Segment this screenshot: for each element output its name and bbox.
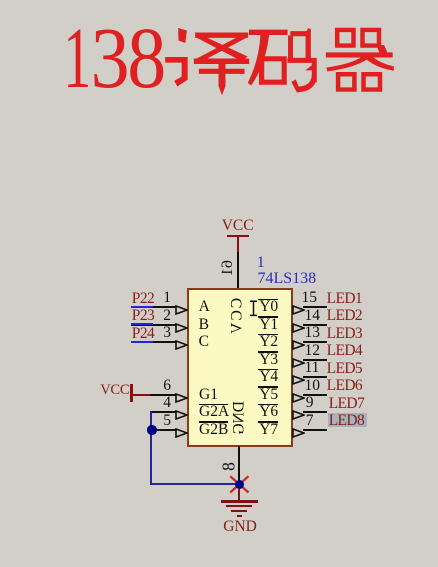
title char 器 dog dot stroke <box>377 45 387 54</box>
wire pin 10 <box>303 394 327 396</box>
wire pin 2 <box>131 324 176 326</box>
wire pin 1 <box>131 306 176 308</box>
wire pin 16 <box>237 252 239 289</box>
title char 译 right part right-falling cross stroke <box>197 38 247 61</box>
pin name Y0 <box>259 299 278 315</box>
pin name G2B overline <box>199 421 228 423</box>
pin number 7 <box>306 413 314 429</box>
pin number 9 <box>306 395 314 411</box>
ground net label GND <box>223 519 257 535</box>
net label LED2 <box>327 308 362 324</box>
pin number 12 <box>305 343 321 359</box>
pin number 13 <box>305 325 321 341</box>
power port VCC (top) bar <box>227 235 250 237</box>
net label LED5 <box>327 361 362 377</box>
pin name Y1 <box>259 317 278 333</box>
pin 1 arrow <box>175 302 188 320</box>
pin number 16 (rotated 90) <box>220 252 236 284</box>
pin name Y6 overline <box>258 404 278 406</box>
net label P23 blue underline <box>131 323 153 325</box>
ground symbol bar 1 <box>221 500 258 502</box>
wire pin 11 <box>303 376 327 378</box>
pin 3 arrow <box>175 337 188 355</box>
svg-text:8: 8 <box>127 9 166 106</box>
title char 译 speech radical horizontal-fold-lift <box>166 57 188 86</box>
junction dot on pin5 wire <box>147 425 156 434</box>
net label LED7 <box>329 396 364 412</box>
pin 9 arrow <box>292 407 305 425</box>
net label P24 blue underline <box>131 341 153 343</box>
pin number 14 <box>305 308 321 324</box>
title char 译 right part short horizontal <box>199 69 244 73</box>
pin number 11 <box>305 360 320 376</box>
junction dot at pin 8 / gnd node <box>235 480 244 489</box>
title char 码 horse top fold vertical <box>306 29 311 60</box>
title char 码 horse bottom hook <box>292 76 317 92</box>
power port VCC (top) stub <box>237 237 239 252</box>
ground symbol bar 2 <box>226 505 253 507</box>
power port VCC (left) bar <box>130 384 132 403</box>
pin name A <box>199 299 210 315</box>
net label LED8 selection highlight <box>328 413 366 426</box>
hidden pin name VCC (rotated 90) <box>229 297 245 337</box>
pin 14 arrow <box>292 320 305 338</box>
pin 6 arrow <box>175 390 188 408</box>
pin number 10 <box>305 378 321 394</box>
pin 7 arrow <box>292 425 305 443</box>
title char 译 speech radical dot <box>179 29 187 43</box>
wire pin 14 <box>303 324 327 326</box>
pin name Y7 overline <box>258 421 278 423</box>
wire pin 12 <box>303 359 327 361</box>
schematic title 138译码器 <box>0 0 438 110</box>
title char 器 dog right-falling stroke <box>365 57 394 70</box>
svg-text:1: 1 <box>63 9 91 106</box>
pin name Y4 overline <box>258 369 278 371</box>
pin number 2 <box>163 308 171 324</box>
pin number 15 <box>302 290 318 306</box>
wire pin 13 <box>303 341 327 343</box>
pin name Y3 <box>259 352 278 368</box>
title char 译 right part vertical <box>219 64 225 95</box>
hidden pin name GND (rotated 90) <box>231 398 247 438</box>
wire pin 9 <box>303 411 327 413</box>
wire pin 8 <box>238 446 240 483</box>
wire pin 5 <box>151 429 176 431</box>
pin 12 arrow <box>292 355 305 373</box>
title char 器 top-left mouth <box>335 28 355 47</box>
pin name G2A <box>199 404 229 420</box>
pin name Y7 <box>259 422 278 438</box>
title char 译 right part top horizontal <box>196 33 248 38</box>
ground symbol bar 3 <box>231 510 248 512</box>
net label LED4 <box>327 343 362 359</box>
wire pin 6 <box>150 394 176 396</box>
pin number 4 <box>163 395 171 411</box>
net label P24 <box>132 326 154 342</box>
pin name Y2 overline <box>258 334 278 336</box>
pin name Y3 overline <box>258 351 278 353</box>
title char 码 horse right fold vertical with serif <box>306 62 316 82</box>
title char 码 horse top horizontal <box>291 32 308 36</box>
pin number 5 <box>163 413 171 429</box>
pin name Y6 <box>259 404 278 420</box>
net label LED1 <box>327 291 362 307</box>
pin 5 arrow <box>175 425 188 443</box>
net label P22 blue underline <box>131 306 153 308</box>
pin name C <box>199 334 209 350</box>
pin 11 arrow <box>292 372 305 390</box>
title char 器 top-right mouth <box>361 28 381 47</box>
pin name G2B <box>199 422 228 438</box>
pin 13 arrow <box>292 337 305 355</box>
power port VCC (top) label <box>222 218 254 234</box>
pin 15 arrow <box>292 302 305 320</box>
pin name Y2 <box>259 334 278 350</box>
part type 74LS138 <box>258 271 317 287</box>
pin name Y5 <box>259 387 278 403</box>
title char 码 stone top horizontal <box>249 30 287 35</box>
pin name B <box>199 317 209 333</box>
pin name Y4 <box>259 369 278 385</box>
no-ERC marker X <box>229 475 250 499</box>
wire pin 4 <box>151 411 176 413</box>
pin name Y5 overline <box>258 386 278 388</box>
title char 器 bottom-left mouth <box>336 72 356 91</box>
title char 码 stone left-falling stroke <box>248 35 269 85</box>
pin name Y1 overline <box>258 316 278 318</box>
blue wire vertical from pin 4 down to gnd rail <box>150 411 152 483</box>
pin 2 arrow <box>175 320 188 338</box>
title char 器 dog left-falling stroke <box>327 57 371 71</box>
title char 器 middle horizontal <box>326 53 392 58</box>
ground symbol bar 4 <box>237 515 242 517</box>
svg-text:3: 3 <box>91 9 130 106</box>
net label LED8 <box>329 413 364 429</box>
net label P22 <box>132 291 154 307</box>
title char 码 horse middle horizontal <box>288 58 317 62</box>
IC body U? 74LS138 <box>187 288 293 446</box>
net label LED3 <box>327 326 362 342</box>
pin 4 arrow <box>175 407 188 425</box>
net label LED6 <box>327 378 362 394</box>
title char 码 horse left vertical <box>288 36 292 59</box>
pin number 3 <box>163 325 171 341</box>
pin name G1 <box>199 387 218 403</box>
power port VCC (left) stub <box>133 394 151 396</box>
ground symbol stub <box>238 489 240 501</box>
pin 10 arrow <box>292 390 305 408</box>
wire pin 7 <box>303 429 327 431</box>
pin number 1 <box>163 290 171 306</box>
title char 码 stone mouth box <box>259 57 286 85</box>
pin number 8 (rotated 90) <box>220 457 237 477</box>
net label P23 <box>132 308 154 324</box>
power port VCC (left) label <box>100 383 129 399</box>
title char 译 right part long horizontal <box>194 59 249 64</box>
text edit cursor I-beam <box>249 300 258 322</box>
pin number 6 <box>163 378 171 394</box>
blue wire horizontal to pin 8 node <box>150 483 239 485</box>
designator 1 <box>257 255 265 271</box>
title char 器 bottom-right mouth <box>362 72 382 91</box>
pin name Y0 overline <box>258 299 278 301</box>
wire pin 3 <box>131 341 176 343</box>
wire pin 15 <box>303 306 327 308</box>
title char 译 right part left-falling cross stroke <box>196 38 246 60</box>
pin name G2A overline <box>199 404 228 406</box>
